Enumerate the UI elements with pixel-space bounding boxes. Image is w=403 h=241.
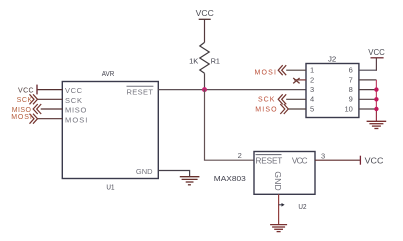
svg-text:MOSI: MOSI (65, 115, 87, 124)
svg-text:9: 9 (349, 95, 353, 104)
svg-text:J2: J2 (328, 54, 336, 63)
svg-text:MOSI: MOSI (11, 114, 32, 121)
svg-text:5: 5 (310, 104, 314, 113)
svg-text:7: 7 (349, 75, 353, 84)
svg-text:MISO: MISO (12, 107, 32, 114)
svg-text:VCC: VCC (292, 156, 308, 165)
svg-text:3: 3 (321, 151, 325, 160)
svg-text:VCC: VCC (18, 88, 34, 95)
svg-text:MISO: MISO (65, 106, 87, 115)
svg-text:MAX803: MAX803 (214, 174, 246, 183)
svg-text:MISO: MISO (255, 106, 277, 113)
svg-text:U2: U2 (298, 202, 306, 211)
svg-text:VCC: VCC (365, 156, 384, 165)
svg-text:GND: GND (273, 171, 283, 191)
svg-text:VCC: VCC (368, 48, 385, 57)
svg-text:AVR: AVR (102, 69, 115, 78)
svg-text:6: 6 (349, 66, 353, 75)
svg-text:VCC: VCC (196, 9, 214, 18)
svg-text:GND: GND (136, 167, 153, 176)
svg-text:SCK: SCK (65, 96, 82, 105)
svg-text:8: 8 (349, 85, 353, 94)
svg-text:RESET: RESET (256, 156, 283, 165)
svg-text:RESET: RESET (127, 87, 154, 96)
svg-text:R1: R1 (211, 56, 220, 65)
svg-text:VCC: VCC (65, 86, 83, 95)
svg-text:3: 3 (310, 85, 314, 94)
svg-text:MOSI: MOSI (255, 69, 277, 76)
svg-text:1: 1 (310, 66, 314, 75)
svg-text:SCK: SCK (258, 97, 275, 104)
svg-text:2: 2 (238, 151, 242, 160)
svg-text:2: 2 (310, 75, 314, 84)
svg-text:4: 4 (310, 95, 314, 104)
svg-text:SCK: SCK (17, 97, 33, 104)
svg-text:1K: 1K (189, 56, 198, 65)
svg-text:U1: U1 (106, 183, 114, 192)
svg-text:10: 10 (344, 104, 352, 113)
